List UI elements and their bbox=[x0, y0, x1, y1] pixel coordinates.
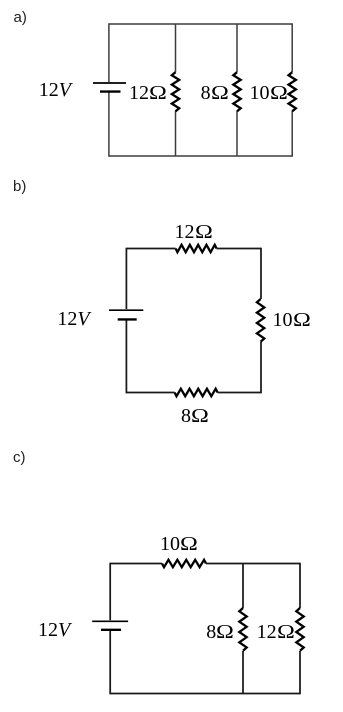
resistor R4 value label 12Ω (circuit b top) bbox=[175, 222, 210, 242]
wire a right upper bbox=[291, 23, 293, 72]
battery V3 long plate (circuit c) bbox=[92, 620, 128, 622]
wire a left upper (to battery) bbox=[108, 23, 110, 82]
wire b left upper (to battery) bbox=[125, 248, 127, 309]
resistor R8 value label 8Ω (circuit c middle) bbox=[206, 622, 231, 642]
resistor R9 value label 12Ω (circuit c right) bbox=[257, 622, 292, 642]
resistor R6 value label 8Ω (circuit b bottom) bbox=[181, 406, 206, 426]
resistor R3 zigzag 10Ω (circuit a) bbox=[289, 72, 296, 111]
resistor R2 value label 8Ω (circuit a) bbox=[201, 83, 226, 103]
resistor R5 value label 10Ω (circuit b right) bbox=[273, 310, 308, 330]
source V2 value label 12V (circuit b) bbox=[57, 309, 89, 329]
wire a branch R2 upper bbox=[236, 24, 238, 72]
battery V3 short plate (circuit c) bbox=[101, 629, 121, 631]
circuit a wires bbox=[109, 23, 292, 156]
label c) bbox=[13, 450, 26, 465]
wire a top bbox=[109, 23, 292, 25]
circuit b wires bbox=[126, 248, 261, 394]
resistor R8 zigzag 8Ω (circuit c middle) bbox=[239, 608, 246, 651]
battery V1 short plate (circuit a) bbox=[100, 90, 121, 92]
resistor R9 zigzag 12Ω (circuit c right) bbox=[296, 608, 303, 651]
source V3 value label 12V (circuit c) bbox=[38, 620, 70, 640]
wire c bottom bbox=[110, 693, 300, 695]
wire c left upper (to battery) bbox=[109, 563, 111, 621]
resistor R1 zigzag 12Ω (circuit a) bbox=[172, 72, 179, 111]
resistor R6 zigzag 8Ω (circuit b bottom) bbox=[175, 389, 218, 396]
wire a bottom bbox=[109, 155, 292, 157]
resistor R4 zigzag 12Ω (circuit b top) bbox=[176, 245, 217, 252]
battery V1 long plate (circuit a) bbox=[93, 82, 126, 84]
resistor R2 zigzag 8Ω (circuit a) bbox=[233, 72, 240, 111]
label b) bbox=[13, 179, 26, 194]
wire b right upper bbox=[260, 248, 262, 299]
label a) bbox=[14, 10, 27, 25]
wire b left lower (from battery) bbox=[125, 321, 127, 394]
wire a branch R1 upper bbox=[175, 24, 177, 72]
wire c right upper bbox=[299, 563, 301, 608]
resistor R7 value label 10Ω (circuit c top) bbox=[160, 534, 195, 554]
wire b bottom right segment bbox=[218, 392, 261, 394]
wire a left lower (from battery) bbox=[108, 93, 110, 157]
wire c right lower bbox=[299, 651, 301, 694]
wire c top right segment bbox=[206, 563, 300, 565]
wire c top left segment bbox=[110, 563, 162, 565]
wire a right lower bbox=[291, 111, 293, 157]
resistor R3 value label 10Ω (circuit a) bbox=[250, 83, 285, 103]
wire a branch R1 lower bbox=[175, 111, 177, 156]
battery V2 short plate (circuit b) bbox=[118, 318, 137, 320]
wire b top left segment bbox=[126, 248, 175, 250]
wire c middle branch upper bbox=[242, 564, 244, 609]
resistor R5 zigzag 10Ω (circuit b right) bbox=[257, 299, 264, 342]
resistor R7 zigzag 10Ω (circuit c top) bbox=[162, 560, 206, 567]
source V1 value label 12V (circuit a) bbox=[39, 80, 71, 100]
wire b top right segment bbox=[217, 248, 261, 250]
battery V2 long plate (circuit b) bbox=[109, 309, 143, 311]
wire c middle branch lower bbox=[242, 651, 244, 694]
wire b right lower bbox=[260, 342, 262, 393]
resistor R1 value label 12Ω (circuit a) bbox=[129, 83, 164, 103]
wire a branch R2 lower bbox=[236, 111, 238, 156]
circuit c wires bbox=[110, 563, 300, 695]
wire b bottom left segment bbox=[126, 392, 174, 394]
wire c left lower (from battery) bbox=[109, 631, 111, 694]
